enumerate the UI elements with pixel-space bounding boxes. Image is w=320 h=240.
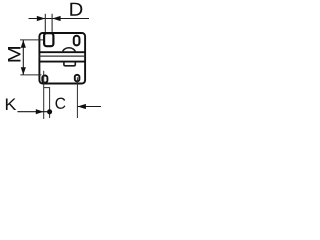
dimension D extension tick right — [51, 14, 53, 32]
dimension K line — [17, 111, 47, 113]
origin dot — [47, 109, 52, 114]
top-left slot — [44, 33, 53, 46]
dimension D right arrowhead — [52, 16, 60, 21]
dimension M line — [22, 40, 24, 75]
dimension K arrowhead — [36, 109, 44, 114]
top-left slot flat top — [43, 32, 54, 34]
dimension D line — [29, 18, 90, 20]
dimension M down arrowhead — [21, 67, 26, 75]
extension line from bottom-right slot — [76, 77, 78, 118]
middle thin line — [39, 55, 85, 57]
label K — [6, 99, 16, 111]
label C — [56, 98, 66, 109]
upper flange parting line — [39, 51, 85, 53]
bottom-right slot — [75, 75, 80, 82]
top dome — [63, 48, 75, 52]
bottom-left slot — [42, 76, 47, 83]
extension line from bottom-left slot — [43, 71, 45, 119]
dimension M up arrowhead — [21, 40, 26, 48]
bottom tab — [64, 62, 75, 66]
label M (rotated) — [8, 47, 21, 62]
top-right hole — [74, 36, 80, 46]
jogged extension line to dot — [44, 88, 50, 118]
dimension D extension tick left — [44, 14, 46, 32]
dimension M top extension line — [20, 39, 44, 41]
dimension C arrowhead — [78, 104, 86, 109]
part body outline — [39, 33, 85, 84]
dimension D left arrowhead — [37, 16, 45, 21]
label D — [70, 3, 82, 16]
dimension C line — [78, 106, 102, 108]
dimension M bottom extension line — [20, 74, 41, 76]
lower flange parting line — [39, 61, 85, 63]
